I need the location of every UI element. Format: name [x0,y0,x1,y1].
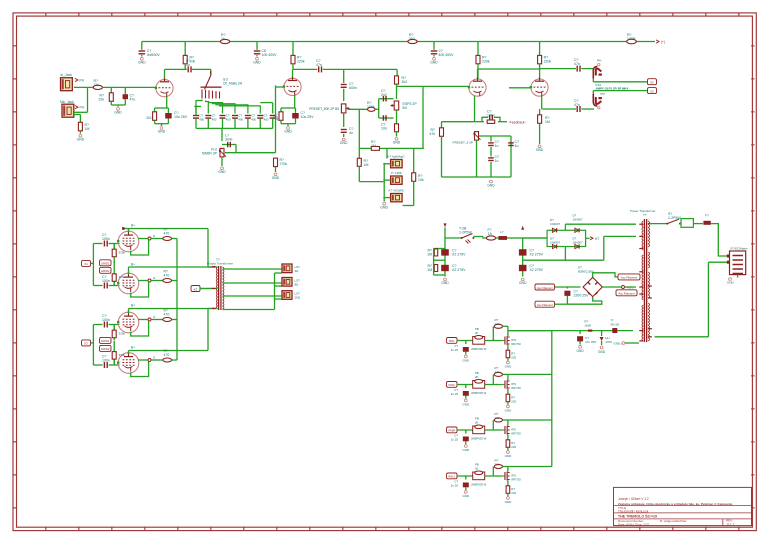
svg-text:PH12: PH12 [449,475,456,479]
svg-text:1M: 1M [371,144,376,148]
svg-text:220: 220 [511,356,516,360]
svg-text:47n: 47n [316,63,322,67]
svg-text:1u: 1u [495,159,499,163]
svg-text:47u: 47u [130,98,136,102]
svg-text:100 400V: 100 400V [262,53,278,57]
svg-text:100R: 100R [627,37,636,41]
svg-text:GND: GND [519,281,527,285]
svg-text:47n: 47n [574,62,580,66]
svg-text:The Emotil / KenLuck: The Emotil / KenLuck [618,509,649,513]
svg-text:3k3: 3k3 [409,37,415,41]
svg-text:GND: GND [487,184,495,188]
svg-text:10u 25V: 10u 25V [301,115,315,119]
svg-text:400: 400 [199,118,204,122]
svg-text:GND: GND [598,350,606,354]
svg-text:1M: 1M [94,83,99,87]
svg-text:X3: X3 [194,287,198,291]
svg-text:22k: 22k [98,98,104,102]
svg-text:1-2P5W: 1-2P5W [668,216,681,220]
svg-text:330k: 330k [119,332,126,336]
svg-text:GND: GND [380,205,388,209]
svg-text:B+: B+ [131,346,135,350]
svg-text:X2 275V: X2 275V [530,253,544,257]
svg-text:220: 220 [495,416,500,420]
svg-text:3% 5H: 3% 5H [610,323,619,327]
svg-text:Joseph / Gilbert V 1.2: Joseph / Gilbert V 1.2 [618,497,649,501]
svg-text:2u 25: 2u 25 [451,438,459,442]
svg-text:10n: 10n [381,127,387,131]
svg-text:5W6R 2P: 5W6R 2P [202,152,218,156]
svg-text:X2 275V: X2 275V [452,253,466,257]
svg-text:GND: GND [505,409,513,413]
svg-text:PH: PH [80,106,85,110]
svg-text:100k: 100k [367,105,375,109]
svg-text:X1: X1 [84,262,88,266]
svg-text:10k: 10k [418,178,424,182]
svg-text:GND: GND [462,403,470,407]
svg-text:2KBP005 W: 2KBP005 W [471,483,487,487]
svg-text:GND: GND [77,137,85,141]
svg-text:X2: X2 [84,342,88,346]
svg-text:GND (: GND ( [614,342,623,346]
svg-text:22k: 22k [273,116,279,120]
svg-text:2K: 2K [475,421,479,425]
svg-text:220: 220 [495,462,500,466]
svg-text:X2 275V: X2 275V [530,268,544,272]
svg-text:2k2: 2k2 [146,116,151,120]
svg-text:100n: 100n [102,359,110,363]
svg-text:Zavjalov prikazuje, hitita obo: Zavjalov prikazuje, hitita obodnicku a v… [618,502,733,506]
svg-text:GRID2: GRID2 [101,347,110,351]
svg-text:400: 400 [238,118,243,122]
svg-text:GND: GND [340,141,348,145]
svg-text:470: 470 [164,353,170,357]
svg-text:X2: X2 [650,89,654,93]
svg-text:THE TREMOLO Ščr=29: THE TREMOLO Ščr=29 [618,514,657,519]
svg-text:IRF730: IRF730 [511,386,521,390]
svg-text:Aux Filament: Aux Filament [537,286,553,290]
svg-text:Output Transformer: Output Transformer [207,262,233,266]
svg-text:470: 470 [164,313,170,317]
svg-text:400: 400 [251,118,256,122]
svg-text:47u 35V: 47u 35V [585,340,596,344]
svg-text:X2 275V: X2 275V [452,268,466,272]
svg-text:-Feedback-: -Feedback- [509,120,526,124]
svg-text:PH6R: PH6R [448,429,455,433]
svg-text:Aux Filament: Aux Filament [537,303,553,307]
svg-text:2u 25: 2u 25 [451,484,459,488]
svg-text:GND: GND [253,60,261,64]
svg-text:1u: 1u [495,144,499,148]
svg-text:GND: GND [284,130,292,134]
svg-text:220: 220 [495,370,500,374]
svg-text:1N4007: 1N4007 [550,222,561,226]
svg-text:220: 220 [511,445,516,449]
svg-text:2KBP005 W: 2KBP005 W [471,391,487,395]
svg-text:600n: 600n [349,86,357,90]
svg-text:2u 25: 2u 25 [451,348,459,352]
svg-text:(+): (+) [661,40,665,44]
svg-text:J? 1458: J? 1458 [390,171,401,175]
svg-text:PRESET_50K 2P B5: PRESET_50K 2P B5 [309,107,339,111]
svg-text:2n2: 2n2 [381,93,387,97]
svg-text:Date: 4.04.y Time: 7:02: Date: 4.04.y Time: 7:02 [618,522,649,526]
svg-text:1u: 1u [515,144,519,148]
svg-text:1M: 1M [364,163,369,167]
svg-text:B+: B+ [131,263,135,267]
svg-text:Acc Filament: Acc Filament [618,292,634,296]
svg-text:1M: 1M [545,120,550,124]
svg-text:GND: GND [441,281,449,285]
svg-text:BR1: BR1 [449,339,455,343]
svg-text:1u: 1u [186,63,190,67]
svg-text:GRID2: GRID2 [101,269,110,273]
svg-text:Mic_Jack: Mic_Jack [60,100,74,104]
svg-text:PH: PH [597,58,601,62]
svg-text:GND: GND [536,148,544,152]
svg-text:400: 400 [226,118,231,122]
svg-text:GND: GND [462,448,470,452]
svg-text:PH: PH [601,92,605,96]
svg-text:2KBP005 W: 2KBP005 W [471,347,487,351]
svg-text:0.1.7: 0.1.7 [727,522,735,526]
svg-text:10u 25V: 10u 25V [174,115,188,119]
svg-text:2K: 2K [475,331,479,335]
svg-text:Acc Filament: Acc Filament [621,276,637,280]
svg-text:B3: B3 [403,106,407,110]
svg-text:2KBP005 W: 2KBP005 W [471,437,487,441]
svg-text:F?: F? [705,214,709,218]
svg-text:GND: GND [577,349,585,353]
svg-text:Ch_Make.2H: Ch_Make.2H [223,82,243,86]
svg-text:1N4007: 1N4007 [573,218,584,222]
svg-text:PRESET_5 2P: PRESET_5 2P [453,141,473,145]
svg-text:1-2P5W: 1-2P5W [459,231,472,235]
svg-text:B380C1500: B380C1500 [578,270,594,274]
svg-text:270k: 270k [280,162,288,166]
svg-text:GRID1: GRID1 [101,339,110,343]
svg-text:3mH: 3mH [225,138,233,142]
svg-text:GRID1: GRID1 [101,262,110,266]
svg-text:47k: 47k [429,132,435,136]
svg-text:B+: B+ [131,304,135,308]
svg-text:220: 220 [511,491,516,495]
svg-text:GND: GND [138,60,146,64]
svg-text:4n: 4n [349,131,353,135]
svg-text:GND: GND [158,130,166,134]
svg-text:1N4007: 1N4007 [573,241,584,245]
svg-text:GND: GND [114,111,122,115]
svg-text:100n: 100n [102,318,110,322]
svg-text:B+: B+ [131,224,135,228]
svg-text:IRF730: IRF730 [511,478,521,482]
svg-text:220: 220 [511,400,516,404]
svg-text:X1: X1 [650,81,654,85]
svg-text:GND: GND [505,500,513,504]
svg-text:GND: GND [430,60,438,64]
svg-text:100n: 100n [102,279,110,283]
svg-text:2K: 2K [475,375,479,379]
svg-text:100n: 100n [102,237,110,241]
svg-text:IRF730: IRF730 [511,432,521,436]
svg-text:GND: GND [272,176,280,180]
svg-text:220: 220 [495,322,500,326]
svg-text:1600: 1600 [584,324,591,328]
svg-text:L?: L? [500,230,504,234]
svg-text:GND: GND [505,365,513,369]
svg-text:470: 470 [164,232,170,236]
svg-text:GND: GND [505,454,513,458]
svg-text:HT: HT [595,237,599,241]
svg-text:GND: GND [393,140,401,144]
svg-text:400: 400 [212,118,217,122]
svg-text:GND: GND [727,281,735,285]
svg-text:K? 4C5W6: K? 4C5W6 [389,189,404,193]
svg-text:2u 25: 2u 25 [451,392,459,396]
svg-text:X? IEC/Mains: X? IEC/Mains [730,247,748,251]
svg-text:GND: GND [462,359,470,363]
svg-text:AMPY OLP1 2P-JR MK4: AMPY OLP1 2P-JR MK4 [596,86,629,90]
svg-text:330k: 330k [119,251,126,255]
svg-text:16Ω: 16Ω [295,296,301,300]
svg-text:2K: 2K [475,467,479,471]
svg-text:4n/630V: 4n/630V [147,53,161,57]
svg-text:PH: PH [80,79,85,83]
svg-text:GND: GND [218,170,226,174]
svg-text:47n: 47n [574,103,580,107]
svg-text:B. VeljąnoviReziNer: B. VeljąnoviReziNer [660,519,687,523]
svg-text:1N4007: 1N4007 [550,241,561,245]
svg-text:1k: 1k [221,37,225,41]
svg-text:100n: 100n [487,114,495,118]
svg-text:PH6L: PH6L [449,383,456,387]
svg-text:4700: 4700 [605,340,612,344]
svg-text:330k: 330k [119,275,126,279]
svg-text:1M: 1M [427,253,432,257]
svg-text:IRF730: IRF730 [511,342,521,346]
svg-text:GND: GND [462,494,470,498]
svg-text:1A: 1A [488,232,493,236]
svg-text:400: 400 [264,118,269,122]
svg-text:K? AgNiAgC: K? AgNiAgC [387,155,405,159]
svg-text:2200 25V: 2200 25V [574,294,590,298]
svg-text:T?: T? [643,213,647,217]
svg-text:220k: 220k [297,60,305,64]
svg-text:470: 470 [164,274,170,278]
svg-text:1M: 1M [427,268,432,272]
svg-text:220k: 220k [482,60,490,64]
svg-text:220k: 220k [544,60,552,64]
svg-text:400 400V: 400 400V [439,53,455,57]
svg-text:1M: 1M [85,127,90,131]
svg-text:330k: 330k [119,353,126,357]
svg-text:2k2: 2k2 [402,80,408,84]
svg-text:In_Jack: In_Jack [61,73,73,77]
